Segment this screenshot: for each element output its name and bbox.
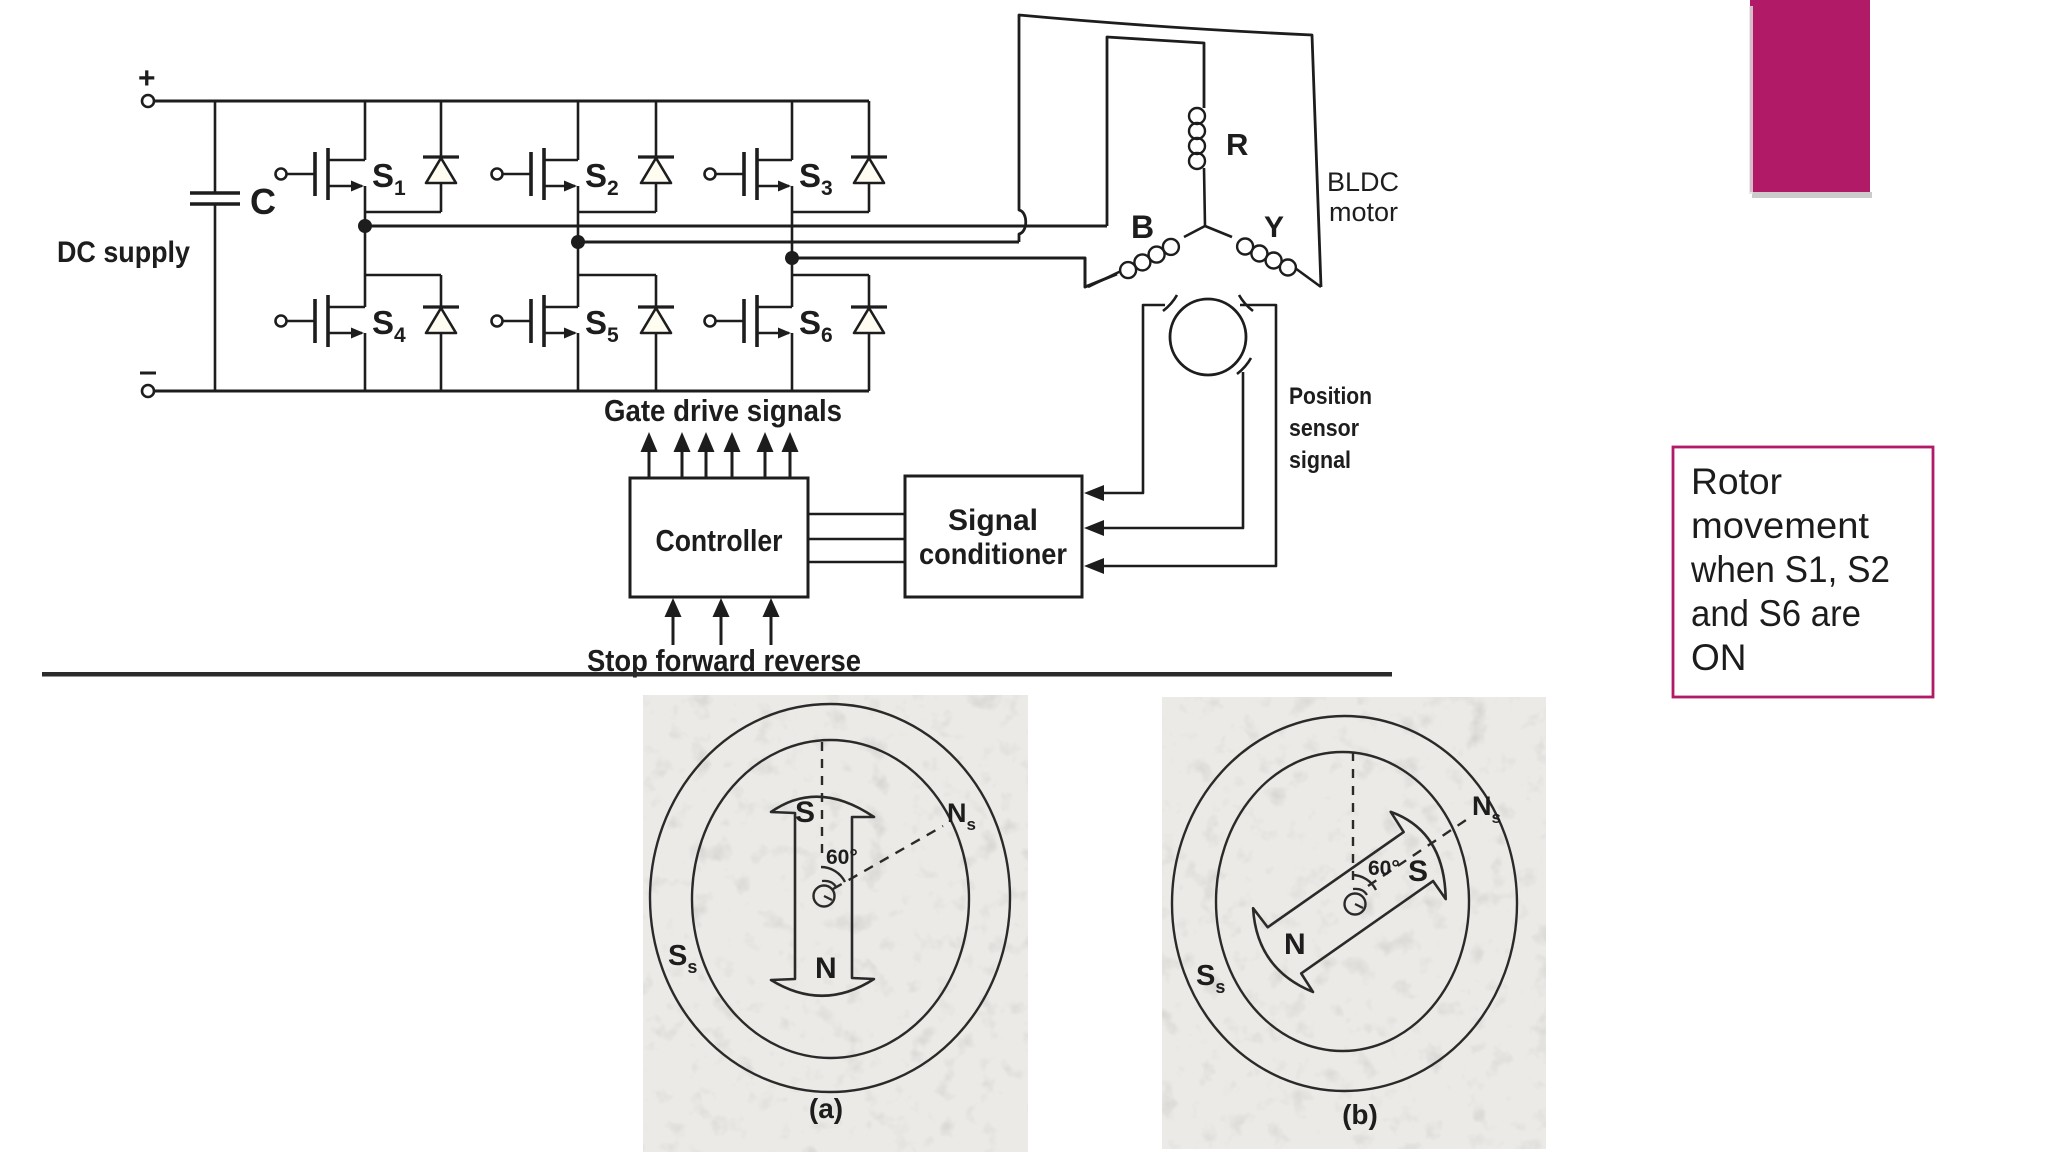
stator outer circle (b) [1172,716,1517,1091]
inductor winding R [1189,108,1205,226]
transistor S4 (MOSFET) [276,295,366,347]
diode D5 antiparallel with S5 [638,275,674,391]
svg-text:S: S [1408,855,1428,888]
capacitor C [190,101,240,391]
diode D6 antiparallel with S6 [851,275,887,391]
svg-text:60°: 60° [826,846,858,869]
wire phase node 3 down to lower cell [791,258,794,275]
diode D2 antiparallel with S2 [638,101,674,212]
svg-text:sensor: sensor [1289,415,1359,442]
sensor coupling tick upper-right [1239,295,1253,311]
node minus terminal of DC supply [142,385,154,397]
transistor S6 (MOSFET) [705,295,793,347]
node phase junction 3 [785,251,799,265]
wire source of S2 to phase node [577,186,580,242]
wire top jog of lower cell S5 [578,274,656,277]
rotor shaft centre mark (a) [814,881,837,907]
wire drain of S1 from + rail [364,101,367,160]
svg-text:S: S [795,796,815,829]
dashed line to stator pole Ns (a) [833,826,943,889]
stator inner circle (a) [692,740,969,1058]
transistor S1 (MOSFET) [276,148,366,200]
svg-text:when S1, S2: when S1, S2 [1690,549,1890,590]
wire control input arrow 1 (stop/forward/reverse) [665,598,682,645]
wire diode D3 anode jog to phase node [792,211,869,214]
svg-text:B: B [1131,209,1154,245]
svg-text:conditioner: conditioner [919,538,1067,571]
diode D3 antiparallel with S3 [851,101,887,212]
svg-text:(a): (a) [809,1093,843,1124]
callout text box: Rotor movement note [1673,447,1933,697]
rotor diagram (a) scanned background [643,695,1028,1152]
divider line [42,672,1392,677]
inductor winding Y [1205,226,1321,287]
rotor shaft centre mark (b) [1345,889,1368,915]
60 degree angle arc (b) [1352,875,1376,890]
wire source of S1 to phase node [364,186,367,226]
decorative magenta rectangle (slide theme) [1749,0,1872,198]
wire gate drive arrow 5 [757,432,774,478]
wire drain of S3 from + rail [791,101,794,160]
svg-text:N: N [1284,928,1306,961]
dashed stator axis (b) [1352,752,1354,887]
wire gate drive arrow 2 [674,432,691,478]
svg-text:+: + [138,62,156,95]
wire phase node 1 down to lower cell [364,226,367,275]
wire gate drive arrow 3 [698,432,715,478]
wire controller-conditioner link 2 [808,538,905,541]
svg-text:N: N [815,952,837,985]
dashed line to stator pole Ns (b) [1368,818,1469,886]
BLDC motor outer frame (connects phase 2 to winding Y) [1019,15,1321,287]
svg-text:Signal: Signal [948,504,1038,537]
wire control input arrow 2 (stop/forward/reverse) [713,598,730,645]
wire bottom rail (-) [154,390,869,393]
position sensor (circle on rotor shaft) [1170,299,1246,375]
sensor coupling tick lower-right [1237,358,1251,374]
wire source of S4 to - rail [364,333,367,391]
transistor S3 (MOSFET) [705,148,793,200]
wire sensor signal 2 [1103,372,1243,528]
sensor coupling tick upper-left [1163,295,1177,311]
svg-text:DC supply: DC supply [57,236,190,269]
svg-text:C: C [250,181,276,222]
BLDC motor inner link (phase 1 over to winding R) [1107,37,1204,226]
svg-text:BLDC: BLDC [1327,167,1399,197]
diode D1 antiparallel with S1 [423,101,459,212]
svg-text:Position: Position [1289,383,1372,410]
svg-text:ON: ON [1691,637,1747,678]
stator outer circle (a) [650,704,1010,1092]
wire controller-conditioner link 1 [808,513,905,516]
stator inner circle (b) [1216,752,1469,1051]
wire diode D2 anode jog to phase node [578,211,656,214]
block Signal conditioner [905,476,1082,597]
wire source of S6 to - rail [791,333,794,391]
transistor S2 (MOSFET) [492,148,579,200]
svg-text:Y: Y [1264,211,1284,244]
wire control input arrow 3 (stop/forward/reverse) [763,598,780,645]
wire phase 2 (from S2/S5 node) to motor frame left edge [578,241,1019,244]
svg-text:Controller: Controller [656,523,783,558]
wire top jog of lower cell S6 [792,274,869,277]
dashed stator axis (a) [821,742,823,858]
svg-text:motor: motor [1329,197,1398,227]
wire top jog of lower cell S4 [365,274,441,277]
wire source of S5 to - rail [577,333,580,391]
wire gate drive arrow 6 [782,432,799,478]
transistor S5 (MOSFET) [492,295,579,347]
wire diode D1 anode jog to phase node [365,211,441,214]
svg-text:Gate drive signals: Gate drive signals [604,393,842,428]
60 degree angle arc (a) [821,867,845,882]
diode D4 antiparallel with S4 [423,275,459,391]
wire top rail (+) [154,100,869,103]
rotor magnet (a) [771,797,874,996]
wire controller-conditioner link 3 [808,561,905,564]
wire sensor signal 1 [1103,305,1165,493]
wire phase 1 (from S1/S4 node) to motor winding R branch [365,225,1107,228]
node plus terminal of DC supply [142,95,154,107]
svg-text:R: R [1226,127,1248,162]
node phase junction 2 [571,235,585,249]
wire phase 3 (from S3/S6 node) to motor winding B [792,258,1117,287]
wire drain of S2 from + rail [577,101,580,160]
inductor winding B [1088,226,1205,287]
svg-text:Rotor: Rotor [1691,461,1782,502]
wire gate drive arrow 4 [724,432,741,478]
wire sensor signal 3 [1103,305,1276,566]
wire drain of S6 [791,275,794,307]
svg-text:movement: movement [1691,505,1870,546]
block Controller [630,478,808,597]
svg-text:and S6 are: and S6 are [1691,593,1861,634]
wire drain of S5 [577,275,580,307]
wire phase node 2 down to lower cell [577,242,580,275]
node phase junction 1 [358,219,372,233]
wire source of S3 to phase node [791,186,794,258]
rotor diagram (b) scanned background [1162,697,1546,1149]
svg-text:(b): (b) [1342,1099,1378,1130]
wire drain of S4 [364,275,367,307]
svg-text:signal: signal [1289,447,1351,474]
svg-text:60°: 60° [1368,857,1400,880]
wire gate drive arrow 1 [641,432,658,478]
rotor magnet (b) [1240,803,1462,1002]
